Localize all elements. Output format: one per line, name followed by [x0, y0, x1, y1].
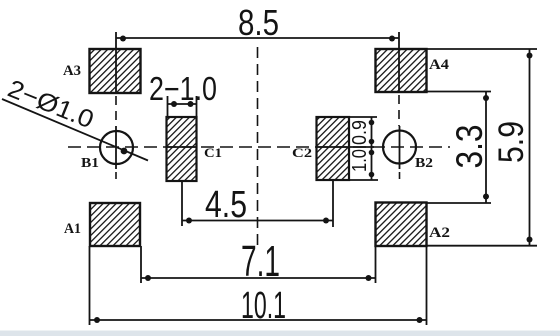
pad C2 [317, 117, 350, 180]
svg-text:10.1: 10.1 [241, 285, 286, 327]
svg-text:A4: A4 [429, 57, 450, 73]
hole B2 [383, 131, 416, 164]
svg-text:0.9: 0.9 [349, 120, 371, 145]
dimension 4.5 [182, 180, 333, 227]
pad A2 [376, 203, 427, 247]
svg-text:A1: A1 [64, 221, 81, 237]
svg-text:5.9: 5.9 [492, 121, 531, 163]
svg-text:2−1.0: 2−1.0 [149, 70, 217, 107]
svg-text:8.5: 8.5 [238, 2, 279, 43]
pad A3 [90, 49, 141, 93]
label A3 [63, 63, 81, 79]
label B1 [81, 156, 99, 171]
dimension 0.9 / 1.0 bracket [349, 117, 378, 180]
pad A1 [90, 203, 140, 246]
hole B1 [100, 131, 133, 164]
label A1 [64, 221, 81, 237]
pad A4 [376, 49, 427, 92]
svg-text:7.1: 7.1 [241, 237, 280, 286]
dimension 3.3 [426, 92, 491, 204]
pad C1 [167, 117, 197, 181]
bottom scan strip [0, 331, 560, 336]
label B2 [415, 156, 433, 171]
vertical centerline left column [115, 32, 117, 184]
central vertical axis [257, 47, 259, 248]
dimension 2-1.0 [149, 70, 217, 117]
svg-text:A2: A2 [429, 225, 450, 241]
dimension 7.1 [141, 237, 376, 286]
svg-text:B1: B1 [81, 156, 99, 171]
label C2 [292, 145, 312, 160]
svg-text:1.0: 1.0 [349, 149, 371, 172]
text 0.9 [349, 120, 371, 145]
svg-text:4.5: 4.5 [205, 184, 247, 226]
centerline through C1 [166, 146, 197, 148]
svg-text:3.3: 3.3 [449, 125, 490, 169]
dimension 5.9 [426, 49, 537, 246]
centerline through C2 [316, 146, 374, 148]
dimension 10.1 [90, 246, 427, 327]
svg-text:A3: A3 [63, 63, 81, 79]
leader 2-dia1.0 [2, 75, 148, 161]
vertical centerline right column [398, 32, 401, 184]
label A2 [429, 225, 450, 241]
label C1 [204, 145, 222, 160]
label A4 [429, 57, 450, 73]
dimension 8.5 [116, 2, 399, 43]
text 1.0 [349, 149, 371, 172]
horizontal centerline [68, 146, 450, 148]
svg-text:B2: B2 [415, 156, 433, 171]
